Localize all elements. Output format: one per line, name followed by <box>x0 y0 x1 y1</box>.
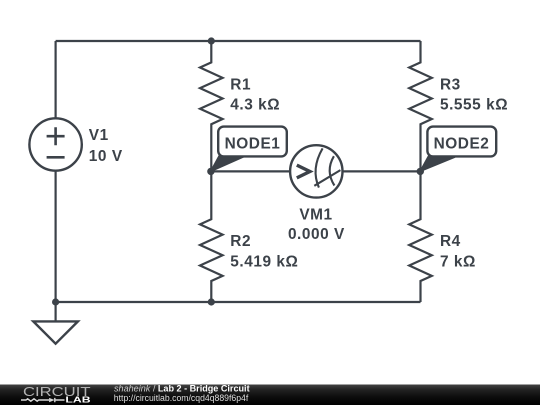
svg-text:5.419 kΩ: 5.419 kΩ <box>230 254 298 271</box>
ground symbol <box>33 321 78 343</box>
svg-text:R3: R3 <box>440 77 461 94</box>
wire top horizontal <box>56 40 421 42</box>
footer bar <box>0 385 540 405</box>
svg-text:VM1: VM1 <box>299 206 332 223</box>
resistor R3 <box>409 41 432 171</box>
voltage source V1 <box>29 118 81 170</box>
wire left vertical (bottom lead of V1) <box>54 171 56 302</box>
svg-text:5.555 kΩ: 5.555 kΩ <box>440 97 508 114</box>
svg-text:0.000 V: 0.000 V <box>288 226 345 243</box>
svg-text:R4: R4 <box>440 233 461 250</box>
junction dot ground node <box>52 298 59 305</box>
junction dot top of R1 <box>208 37 215 44</box>
svg-text:R2: R2 <box>230 233 251 250</box>
resistor R2 <box>200 171 223 302</box>
svg-text:NODE1: NODE1 <box>225 135 281 152</box>
wire bottom horizontal <box>56 301 421 303</box>
resistor R4 <box>409 171 432 302</box>
logo resistor-diode glyph <box>21 398 65 402</box>
node flag NODE2 <box>420 127 496 172</box>
svg-text:7 kΩ: 7 kΩ <box>440 254 476 271</box>
junction dot node1 <box>207 168 214 175</box>
voltmeter VM1 <box>290 145 342 197</box>
svg-text:R1: R1 <box>230 77 251 94</box>
junction dot bottom of R2 <box>208 298 215 305</box>
svg-text:V1: V1 <box>89 127 109 144</box>
node flag NODE1 <box>211 127 287 172</box>
resistor R1 <box>200 41 223 171</box>
svg-text:LAB: LAB <box>65 395 90 405</box>
wire node1 to VM1 <box>211 170 290 172</box>
junction dot node2 <box>417 168 424 175</box>
svg-text:NODE2: NODE2 <box>434 136 490 153</box>
svg-text:4.3 kΩ: 4.3 kΩ <box>230 97 280 114</box>
svg-text:http://circuitlab.com/cqd4q889: http://circuitlab.com/cqd4q889f6p4f <box>114 393 249 403</box>
wire left vertical (top lead of V1) <box>54 41 56 118</box>
wire VM1 to node2 <box>343 170 421 172</box>
wire ground stem <box>54 302 56 321</box>
svg-text:10 V: 10 V <box>89 148 123 165</box>
